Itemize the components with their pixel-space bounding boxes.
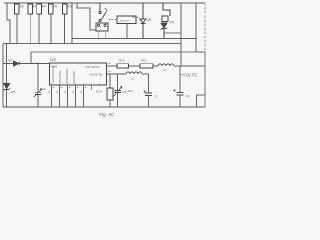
svg-text:C7: C7: [154, 95, 158, 99]
svg-text:R5: R5: [67, 5, 71, 9]
svg-text:R20: R20: [119, 59, 125, 63]
svg-text:THRESHOLD: THRESHOLD: [51, 66, 55, 83]
svg-text:RL1: RL1: [132, 15, 138, 19]
svg-text:GROUND: GROUND: [72, 71, 76, 83]
svg-text:R19: R19: [96, 90, 102, 94]
svg-text:R21: R21: [141, 59, 147, 63]
svg-text:CHP. DETEK: CHP. DETEK: [85, 66, 100, 69]
svg-text:L1: L1: [163, 68, 167, 72]
svg-text:DISCHARG: DISCHARG: [65, 69, 69, 84]
svg-text:R1: R1: [54, 5, 58, 9]
svg-text:R4: R4: [42, 5, 46, 9]
svg-text:D6: D6: [147, 18, 151, 22]
svg-text:BAL/TRIG: BAL/TRIG: [58, 71, 62, 84]
svg-text:PWM: PWM: [51, 66, 57, 69]
svg-text:C9: C9: [186, 94, 190, 98]
svg-text:R2: R2: [33, 5, 37, 9]
svg-text:+VOLTS: +VOLTS: [181, 73, 198, 78]
svg-text:R3: R3: [20, 5, 24, 9]
svg-text:C15: C15: [122, 91, 127, 94]
svg-text:MODE SEL: MODE SEL: [90, 74, 104, 77]
svg-text:C8: C8: [42, 87, 46, 91]
svg-text:ampm: ampm: [120, 19, 130, 23]
svg-text:Fig. 3C: Fig. 3C: [99, 112, 115, 118]
svg-text:D8: D8: [8, 58, 12, 62]
svg-text:D4: D4: [170, 21, 174, 25]
svg-text:D14: D14: [128, 90, 133, 93]
svg-text:D5: D5: [11, 90, 15, 94]
svg-text:U4: U4: [50, 57, 56, 62]
svg-text:L2: L2: [131, 77, 135, 81]
